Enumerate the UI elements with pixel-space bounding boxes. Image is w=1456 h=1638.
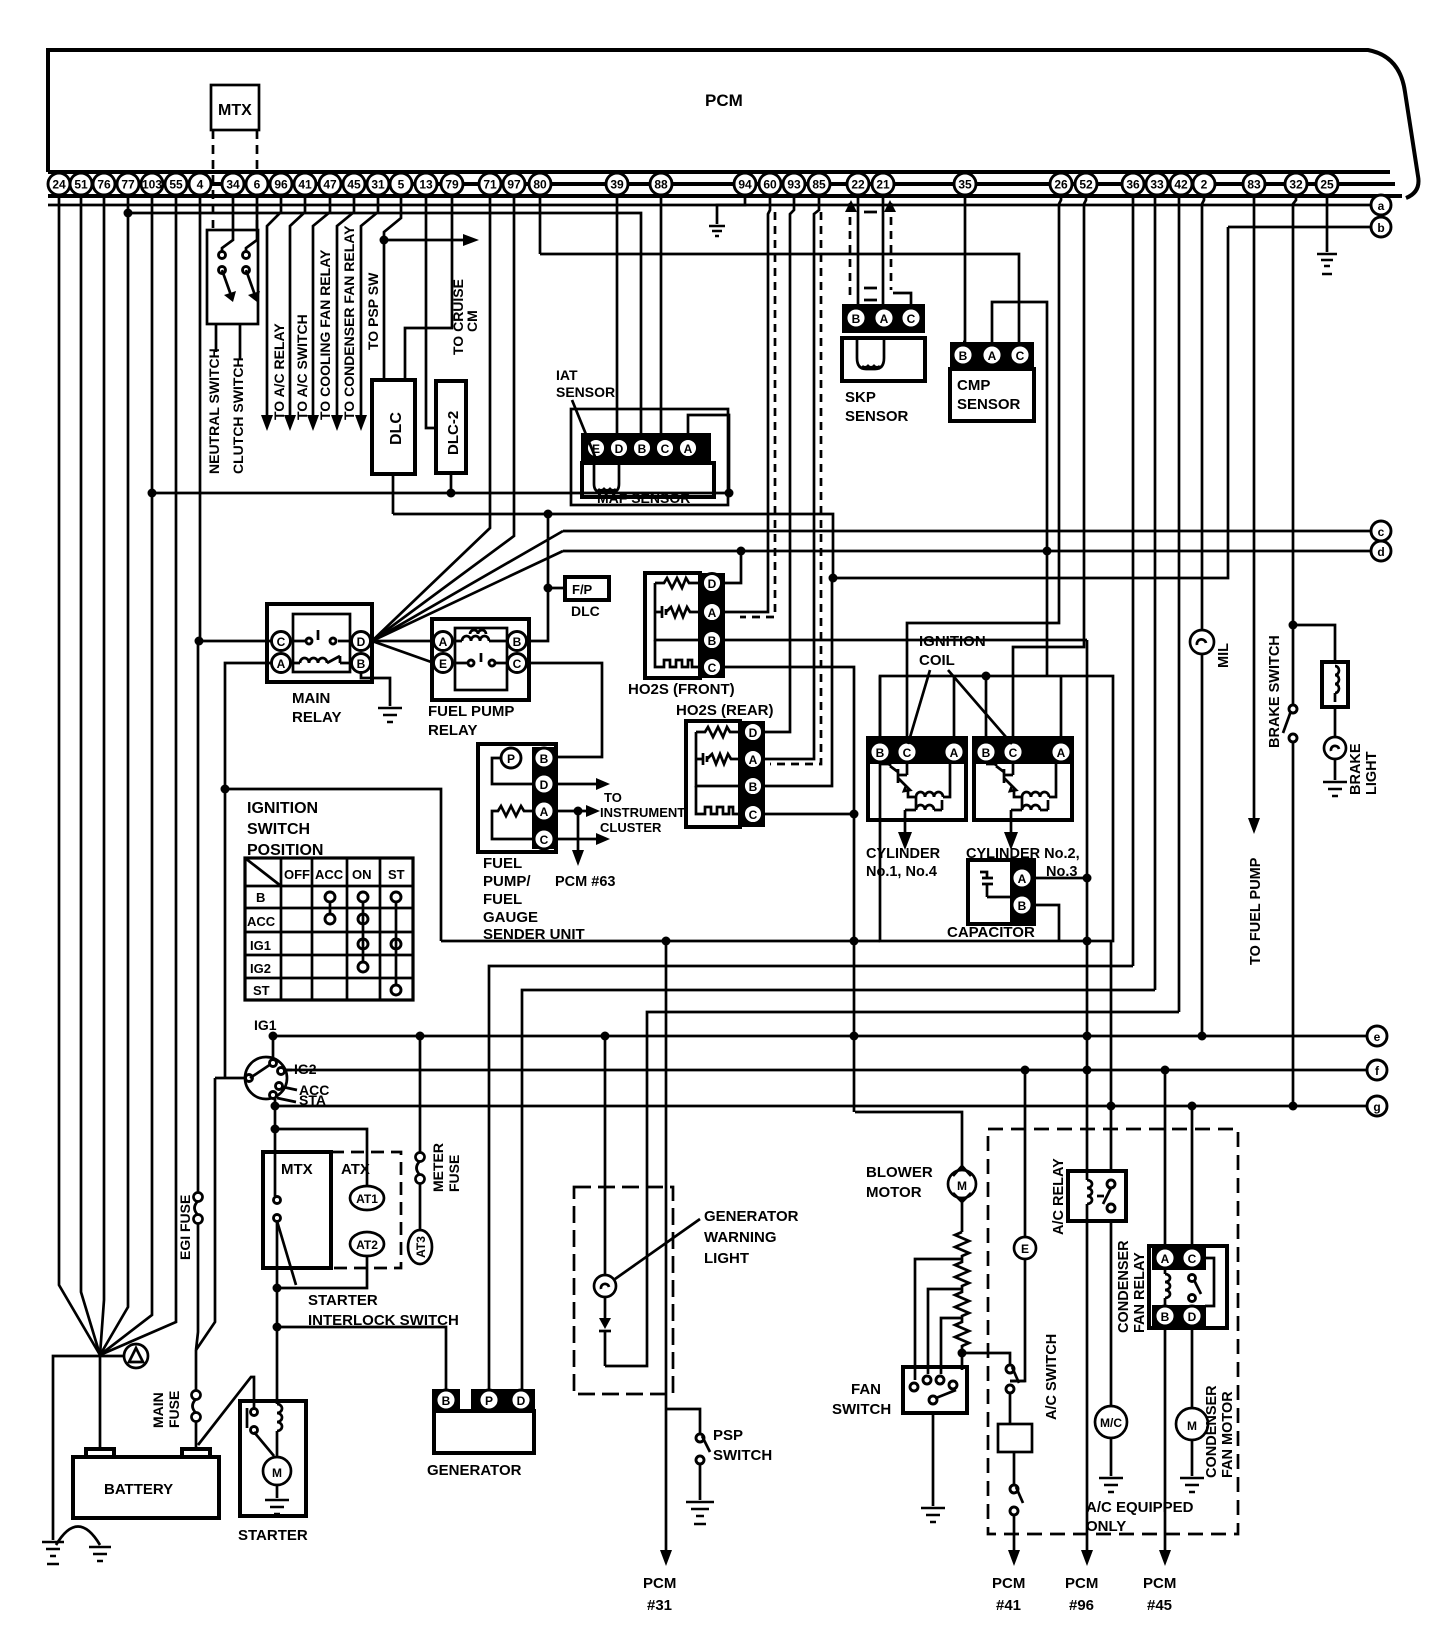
CMP pin A xyxy=(982,345,1002,365)
fuel pump relay pin C xyxy=(508,654,527,673)
node junction rail789 xyxy=(221,785,230,794)
arrow TO CRUISE CM xyxy=(463,234,479,246)
wire pin 33 to rail990 xyxy=(1154,196,1157,990)
node junction brake g xyxy=(1289,1102,1298,1111)
circled E connector xyxy=(1014,1237,1036,1259)
svg-text:b: b xyxy=(1377,221,1384,235)
brake light fuse box xyxy=(1322,662,1348,707)
node junction rear B y578 xyxy=(829,574,838,583)
wire relay D to fuel pump relay A xyxy=(372,640,434,643)
MTX interlock solid box xyxy=(263,1152,331,1268)
svg-text:24: 24 xyxy=(52,178,66,192)
coil2 B wire xyxy=(985,676,988,740)
svg-text:#96: #96 xyxy=(1069,1597,1094,1614)
fuel pump relay pin A xyxy=(434,632,453,651)
svg-text:METER: METER xyxy=(430,1143,446,1192)
wire V1 riser front B to AC relay xyxy=(1086,640,1089,1171)
HO2S rear pin strip xyxy=(740,721,765,827)
node junction sender A xyxy=(574,807,583,816)
starter motor xyxy=(263,1457,291,1485)
node junction V1 rail941 xyxy=(1083,937,1092,946)
svg-text:MAF SENSOR: MAF SENSOR xyxy=(597,490,690,506)
DLC box xyxy=(372,380,415,474)
ignition switch table xyxy=(245,858,413,1000)
main relay B ground wire xyxy=(361,672,390,706)
node junction warning light e xyxy=(601,1032,610,1041)
PCM pin 85 xyxy=(808,173,830,195)
wire rail y990 generator D xyxy=(522,990,1155,1390)
wire funnel left ground drop xyxy=(53,1356,100,1540)
svg-text:ACC: ACC xyxy=(247,914,276,929)
sender pin A xyxy=(534,801,554,821)
PCM pin 35 xyxy=(954,173,976,195)
svg-text:CLUSTER: CLUSTER xyxy=(600,820,662,835)
svg-text:CONDENSER: CONDENSER xyxy=(1116,1240,1132,1333)
wire pin 45 arrow TO CONDENSER FAN RELAY xyxy=(337,196,354,420)
svg-text:GENERATOR: GENERATOR xyxy=(704,1208,799,1225)
svg-text:E: E xyxy=(1021,1242,1029,1256)
wire ATX AT1 feed xyxy=(275,1129,367,1186)
arrow PCM41 xyxy=(1008,1550,1020,1566)
wire battery positive diagonal to starter contact xyxy=(198,1377,254,1445)
node junction pin77 rail xyxy=(124,209,133,218)
sender gauge resistor xyxy=(492,806,532,839)
wire sender A to PCM63 xyxy=(577,811,580,855)
svg-text:A: A xyxy=(439,635,448,649)
wire resistor tap2 xyxy=(928,1289,962,1374)
svg-text:D: D xyxy=(517,1394,526,1408)
EGI fuse symbol xyxy=(194,1193,203,1224)
node junction g AC relay xyxy=(1107,1102,1116,1111)
node junction interlock bottom xyxy=(273,1284,282,1293)
node b xyxy=(1228,226,1370,229)
wire EGI to main fuse funnel xyxy=(195,1350,198,1448)
arrow TO A/C SWITCH xyxy=(284,415,296,431)
condenser relay pin B xyxy=(1155,1306,1175,1326)
coil2 pin B xyxy=(976,742,996,762)
svg-text:ONLY: ONLY xyxy=(1086,1518,1126,1535)
arrow PCM45 xyxy=(1159,1550,1171,1566)
wire rail y941 xyxy=(441,940,880,943)
SKP pin A xyxy=(874,308,894,328)
svg-text:INSTRUMENT: INSTRUMENT xyxy=(600,805,685,820)
CMP connector strip xyxy=(950,342,1034,369)
wire pin 22 to SKP B xyxy=(857,196,860,304)
svg-text:E: E xyxy=(439,657,447,671)
node junction cruise branch xyxy=(380,236,389,245)
wire pin 77 drop xyxy=(100,196,128,1355)
node junction main relay C tee xyxy=(195,637,204,646)
wire pin 21 to SKP A xyxy=(882,196,885,304)
svg-text:32: 32 xyxy=(1289,178,1303,192)
condenser fan relay box xyxy=(1149,1246,1227,1328)
svg-text:C: C xyxy=(277,635,286,649)
wire rail y254 to CMP C xyxy=(540,254,1019,342)
PCM pin 22 xyxy=(847,173,869,195)
PCM pin 21 xyxy=(872,173,894,195)
PCM pin 93 xyxy=(783,173,805,195)
meter fuse symbol xyxy=(416,1153,425,1184)
wire MC to ground xyxy=(1110,1439,1113,1476)
svg-text:C: C xyxy=(1188,1252,1197,1266)
svg-text:AT2: AT2 xyxy=(356,1238,378,1252)
ground fan switch xyxy=(921,1508,945,1522)
ignition coil 2 box xyxy=(974,738,1072,820)
PCM pin 60 xyxy=(759,173,781,195)
wire pin 6 to clutch switch xyxy=(246,196,257,252)
wire pin 71 to relay D fan xyxy=(372,196,490,641)
wire pin 79 to DLC xyxy=(405,196,452,380)
fuel pump relay pin E xyxy=(434,654,453,673)
wire DLC-2 bottom to rail493 xyxy=(450,473,453,493)
condenser relay internals xyxy=(1165,1268,1170,1306)
PCM pin 77 xyxy=(117,173,139,195)
blower resistor zigzags xyxy=(955,1232,969,1346)
wire rail y966 generator P xyxy=(489,966,1133,1390)
fuel pump relay pin B xyxy=(508,632,527,651)
wire coil enclosure corner to node g xyxy=(1110,941,1113,1106)
PCM pin 51 xyxy=(70,173,92,195)
wire rail y1012 warning light xyxy=(605,1012,1179,1366)
svg-text:NEUTRAL SWITCH: NEUTRAL SWITCH xyxy=(206,348,222,474)
svg-text:STARTER: STARTER xyxy=(308,1292,378,1309)
ground condenser motor xyxy=(1180,1478,1204,1492)
wire blower resistor into fan switch xyxy=(961,1345,964,1370)
wire PSP PCM31 drop xyxy=(665,941,668,1555)
svg-text:HO2S (FRONT): HO2S (FRONT) xyxy=(628,681,735,698)
node junction resistor bottom xyxy=(958,1349,967,1358)
node d xyxy=(563,550,1370,553)
node junction DLC-2 rail493 xyxy=(447,489,456,498)
svg-text:SENSOR: SENSOR xyxy=(957,396,1021,413)
fan switch contacts xyxy=(910,1383,918,1391)
wire HO2S front D to node d xyxy=(724,551,741,583)
PCM pin 41 xyxy=(294,173,316,195)
coil1 B wire xyxy=(879,676,882,740)
svg-text:BRAKE SWITCH: BRAKE SWITCH xyxy=(1267,635,1283,748)
capacitor box xyxy=(968,860,1034,924)
svg-text:42: 42 xyxy=(1174,178,1188,192)
wire starter motor ground xyxy=(276,1485,279,1498)
wire MAF A jog to rail493 xyxy=(688,415,729,493)
svg-text:B: B xyxy=(749,780,758,794)
svg-text:55: 55 xyxy=(169,178,183,192)
svg-text:C: C xyxy=(907,312,916,326)
arrow TO CONDENSER FAN RELAY xyxy=(331,415,343,431)
svg-text:ON: ON xyxy=(352,867,372,882)
svg-text:#31: #31 xyxy=(647,1597,672,1614)
wire pin 24 drop xyxy=(59,196,100,1355)
wire HO2S front B long rail xyxy=(724,639,1087,642)
wire branch TO CRUISE CM xyxy=(384,239,468,242)
wire pin 103 drop xyxy=(100,196,152,1355)
PCM pin 39 xyxy=(606,173,628,195)
ignition switch contact leaders xyxy=(277,1070,297,1102)
svg-text:MTX: MTX xyxy=(281,1161,313,1178)
svg-text:#45: #45 xyxy=(1147,1597,1172,1614)
F/P DLC box xyxy=(565,577,609,600)
svg-text:IGNITION: IGNITION xyxy=(247,800,318,817)
wires placeholder xyxy=(42,196,1337,1566)
sender pin D xyxy=(534,774,554,794)
svg-text:IAT: IAT xyxy=(556,367,578,383)
svg-text:A: A xyxy=(684,442,693,456)
main relay pin A xyxy=(272,654,291,673)
svg-text:25: 25 xyxy=(1320,178,1334,192)
table circuit marks ACC xyxy=(325,892,335,924)
svg-text:33: 33 xyxy=(1150,178,1164,192)
wire pin 85 to HO2S rear A xyxy=(764,196,819,759)
ignition coil label leaders xyxy=(908,670,1012,744)
wire fan to node c xyxy=(372,531,563,641)
wire battery negative arc xyxy=(56,1527,100,1546)
node junction generator B rail xyxy=(273,1323,282,1332)
HO2S rear body xyxy=(686,721,740,827)
svg-text:FUSE: FUSE xyxy=(166,1391,182,1428)
generator warning lamp xyxy=(594,1275,616,1297)
HO2S front body xyxy=(645,573,700,678)
svg-text:B: B xyxy=(638,442,647,456)
coil1 output arrow xyxy=(904,820,907,838)
wire pin 60 to HO2S front A xyxy=(724,196,770,612)
svg-text:D: D xyxy=(357,635,366,649)
svg-text:D: D xyxy=(615,442,624,456)
PCM pin 26 xyxy=(1050,173,1072,195)
svg-text:60: 60 xyxy=(763,178,777,192)
wire capacitor B to rail941 xyxy=(1034,905,1059,941)
AT1 xyxy=(350,1186,384,1210)
svg-text:LIGHT: LIGHT xyxy=(1364,751,1380,795)
PCM pin 34 xyxy=(222,173,244,195)
wire pin 36 to rail966 xyxy=(1132,196,1135,966)
wire SKP C shield hook xyxy=(893,293,911,304)
wire ignition B feed xyxy=(215,1077,245,1080)
HO2S front pin D xyxy=(703,574,722,593)
arrow TO PSP SW xyxy=(355,415,367,431)
wire condenser motor ground xyxy=(1191,1440,1194,1476)
svg-text:M: M xyxy=(272,1466,282,1480)
PCM pin 31 xyxy=(367,173,389,195)
node junction pin103 rail493 xyxy=(148,489,157,498)
svg-text:B: B xyxy=(513,635,522,649)
capacitor pin B xyxy=(1012,895,1032,915)
wire node g to condenser fan relay C xyxy=(1191,1106,1194,1246)
wire SKP shield ties xyxy=(864,212,877,300)
svg-text:PCM: PCM xyxy=(705,91,743,110)
MAF body box xyxy=(582,463,714,497)
svg-text:34: 34 xyxy=(226,178,240,192)
svg-text:FAN MOTOR: FAN MOTOR xyxy=(1220,1391,1236,1478)
svg-text:A: A xyxy=(1161,1252,1170,1266)
HO2S rear pin B xyxy=(744,777,763,796)
main relay box xyxy=(267,604,372,682)
main relay switch contacts xyxy=(291,630,351,641)
svg-text:GENERATOR: GENERATOR xyxy=(427,1462,522,1479)
HO2S rear internals xyxy=(696,727,741,737)
svg-text:IG2: IG2 xyxy=(250,961,271,976)
svg-text:MAIN: MAIN xyxy=(150,1392,166,1428)
wire rail y514 xyxy=(393,514,833,578)
svg-text:D: D xyxy=(749,726,758,740)
svg-text:A: A xyxy=(1057,746,1066,760)
arrow PCM31 xyxy=(660,1550,672,1566)
wire STA drop to interlock xyxy=(274,1098,277,1196)
fan switch box xyxy=(903,1367,967,1413)
warning light leader xyxy=(615,1219,700,1279)
CMP pin C xyxy=(1010,345,1030,365)
node junction psp feed xyxy=(662,937,671,946)
node junction MAF A rail xyxy=(725,489,734,498)
coil2 output arrow xyxy=(1010,820,1013,838)
main relay pin C xyxy=(272,632,291,651)
svg-text:A: A xyxy=(880,312,889,326)
HO2S rear pin D xyxy=(744,723,763,742)
svg-text:PCM #63: PCM #63 xyxy=(555,874,615,890)
IAT element coil xyxy=(594,463,619,492)
svg-text:MTX: MTX xyxy=(218,102,252,119)
arrow PCM96 xyxy=(1081,1550,1093,1566)
node junction brake branch xyxy=(1289,621,1298,630)
wire node f to condenser fan relay A xyxy=(1164,1070,1167,1246)
condenser relay pin A xyxy=(1155,1248,1175,1268)
svg-text:80: 80 xyxy=(533,178,547,192)
svg-text:g: g xyxy=(1373,1100,1380,1114)
wire pin 2 through MIL to node e xyxy=(1202,196,1204,1036)
wire generator B rail xyxy=(277,1327,446,1390)
svg-text:e: e xyxy=(1374,1030,1381,1044)
MAF pin strip xyxy=(581,433,711,463)
wire pin 26 to ignition coil 1 C xyxy=(907,196,1061,740)
svg-text:IG1: IG1 xyxy=(254,1017,277,1033)
svg-text:C: C xyxy=(661,442,670,456)
wire rear C chain lower xyxy=(853,1036,856,1112)
svg-text:AT1: AT1 xyxy=(356,1192,378,1206)
svg-text:DLC: DLC xyxy=(571,603,600,619)
svg-text:GAUGE: GAUGE xyxy=(483,909,538,926)
connector pin circles xyxy=(48,173,1338,195)
svg-text:P: P xyxy=(485,1394,493,1408)
HO2S front pin strip xyxy=(700,573,725,678)
wire neutral switch stub xyxy=(215,324,218,352)
svg-text:83: 83 xyxy=(1247,178,1261,192)
arrow instrument C xyxy=(596,833,610,845)
starter coil xyxy=(277,1401,282,1457)
svg-text:ATX: ATX xyxy=(341,1161,370,1178)
node g xyxy=(275,1105,1366,1108)
node junction V1 f xyxy=(1083,1066,1092,1075)
main fuse symbol xyxy=(192,1391,201,1422)
condenser relay pin D xyxy=(1182,1306,1202,1326)
wire pin 25 to ground xyxy=(1326,196,1329,252)
AC relay box xyxy=(1068,1171,1126,1221)
arrow TO A/C RELAY xyxy=(261,415,273,431)
svg-text:4: 4 xyxy=(197,178,204,192)
svg-text:DLC-2: DLC-2 xyxy=(445,411,462,455)
AC relay switch xyxy=(1107,1180,1115,1188)
svg-text:B: B xyxy=(959,349,968,363)
fuel pump relay switch xyxy=(453,653,507,663)
svg-text:POSITION: POSITION xyxy=(247,842,323,859)
ground PSP xyxy=(686,1502,714,1524)
svg-text:MIL: MIL xyxy=(1216,643,1232,668)
svg-text:52: 52 xyxy=(1079,178,1093,192)
wire rail y213 to MAF B xyxy=(128,213,641,433)
PCM pin 94 xyxy=(734,173,756,195)
svg-text:B: B xyxy=(256,890,265,905)
brake switch xyxy=(1289,705,1297,713)
band lower line continuing to node a xyxy=(48,204,1370,207)
svg-text:39: 39 xyxy=(610,178,624,192)
svg-text:A/C EQUIPPED: A/C EQUIPPED xyxy=(1086,1499,1194,1516)
svg-text:CONDENSER: CONDENSER xyxy=(1204,1385,1220,1478)
wire to F/P DLC box xyxy=(548,587,565,590)
svg-text:ACC: ACC xyxy=(315,867,344,882)
PCM top band placeholder xyxy=(48,50,1419,1116)
HO2S rear pin C xyxy=(744,805,763,824)
sender pin C xyxy=(534,829,554,849)
svg-text:A: A xyxy=(988,349,997,363)
wire rail y578 to b riser xyxy=(833,227,1228,578)
wire fan to node d xyxy=(372,551,563,641)
wire ignition B drop to main fuse xyxy=(196,1078,215,1350)
wire thermo to PCM41 xyxy=(1013,1514,1016,1555)
wire pin 97 to relay D fan xyxy=(372,196,514,641)
starter box xyxy=(240,1401,306,1516)
ground brake light xyxy=(1323,782,1347,796)
wire AC relay switch to MC xyxy=(1110,1220,1113,1405)
wire pin 47 arrow TO COOLING FAN RELAY xyxy=(313,196,330,420)
svg-text:SKP: SKP xyxy=(845,389,876,406)
ground pin94 xyxy=(709,226,725,236)
wire IG1 junction label riser xyxy=(272,1036,275,1060)
wire brake light branch xyxy=(1293,625,1335,662)
svg-text:5: 5 xyxy=(398,178,405,192)
svg-text:PSP: PSP xyxy=(713,1427,743,1444)
wire relay D to fuel pump relay E xyxy=(372,641,434,663)
svg-text:CAPACITOR: CAPACITOR xyxy=(947,924,1035,941)
svg-text:BLOWER: BLOWER xyxy=(866,1164,933,1181)
svg-text:EGI FUSE: EGI FUSE xyxy=(177,1195,193,1260)
svg-text:PCM: PCM xyxy=(1143,1575,1176,1592)
svg-text:C: C xyxy=(903,746,912,760)
wire funnel to node A circle xyxy=(100,1355,124,1358)
wire interlock bottom rail xyxy=(277,1256,367,1288)
svg-text:71: 71 xyxy=(483,178,497,192)
HO2S front internals xyxy=(655,578,701,588)
PCM pin 52 xyxy=(1075,173,1097,195)
svg-text:13: 13 xyxy=(419,178,433,192)
wire blower motor to resistor xyxy=(961,1198,964,1232)
arrow PCM63 xyxy=(572,850,584,866)
wire pin 80 to rail254 xyxy=(539,196,542,254)
svg-text:ST: ST xyxy=(388,867,405,882)
svg-text:88: 88 xyxy=(654,178,668,192)
HO2S front pin B xyxy=(703,631,722,650)
node junction f condenser xyxy=(1161,1066,1170,1075)
AC relay coil xyxy=(1087,1171,1092,1221)
svg-text:BATTERY: BATTERY xyxy=(104,1481,173,1498)
wire pin 42 to rail1012 xyxy=(1178,196,1181,1012)
AT3 xyxy=(408,1230,432,1264)
svg-text:C: C xyxy=(513,657,522,671)
capacitor element xyxy=(980,872,1012,897)
node junction cap A riser xyxy=(1083,874,1092,883)
node junction coil2 B top xyxy=(982,672,991,681)
wire clutch switch stub xyxy=(239,324,242,360)
HO2S rear pin A xyxy=(744,750,763,769)
PCM pin 36 xyxy=(1122,173,1144,195)
PCM pin 83 xyxy=(1243,173,1265,195)
